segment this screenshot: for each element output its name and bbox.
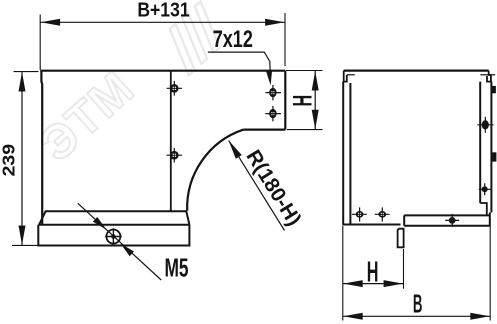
right wall xyxy=(480,82,491,213)
part outline: right flange edge xyxy=(284,71,286,130)
hanging tab xyxy=(398,229,404,248)
rivet on left wall bottom, right xyxy=(375,207,390,221)
dimension 239 xyxy=(12,72,39,246)
leader R(180-H) xyxy=(226,138,285,230)
base rectangle xyxy=(38,225,189,246)
right wall jog xyxy=(480,203,487,215)
right hem hook xyxy=(480,71,495,82)
svg-text:M5: M5 xyxy=(164,253,188,282)
hole 7x12 upper on flange xyxy=(265,85,281,101)
svg-text:B+131: B+131 xyxy=(137,0,189,21)
dimension B (bottom) xyxy=(343,227,490,321)
left hem hook xyxy=(344,71,355,82)
watermark ЭТМ logo xyxy=(30,1,232,172)
rivet on right wall (filled, upper) xyxy=(477,117,493,133)
hole lower on flange xyxy=(265,106,281,122)
dimension H (bottom) xyxy=(343,226,404,321)
part outline: flange bottom edge xyxy=(244,129,286,131)
rivet on right wall (filled, lower) xyxy=(479,183,491,195)
top edge xyxy=(344,69,489,71)
part outline: top edge xyxy=(40,70,285,72)
arc R(180-H) xyxy=(187,130,243,211)
bottom plate xyxy=(404,213,490,226)
connector tab lower xyxy=(491,152,496,161)
rivet on fold line, lower xyxy=(167,148,183,163)
rivet on left wall bottom, left xyxy=(352,207,367,221)
svg-text:H: H xyxy=(287,95,317,107)
leader M5 xyxy=(78,203,161,280)
base trapezoid xyxy=(39,211,189,225)
svg-text:H: H xyxy=(367,256,379,288)
side wall fold line xyxy=(170,71,172,211)
screw M5 symbol xyxy=(105,228,121,244)
rivet on bottom plate xyxy=(445,214,459,227)
bottom edge of side wall xyxy=(342,224,400,226)
svg-text:239: 239 xyxy=(0,144,18,176)
dimension B+131 xyxy=(40,13,285,70)
part outline: left wall xyxy=(40,71,43,225)
svg-text:7x12: 7x12 xyxy=(213,25,253,52)
connector tab upper xyxy=(491,86,496,93)
rivet (weld) on fold line, upper xyxy=(167,81,183,96)
svg-text:B: B xyxy=(413,290,423,319)
dimension H (left view, right side) xyxy=(286,71,323,130)
left wall xyxy=(343,82,350,225)
